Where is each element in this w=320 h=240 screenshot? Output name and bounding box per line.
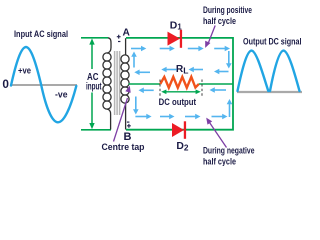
current arrow right rail downward (top loop): [226, 51, 232, 69]
current arrow centre-tap branch downward: [133, 97, 139, 115]
node B polarity minus: [127, 121, 129, 123]
current arrows below mid leftward: [139, 87, 227, 93]
svg-text:input: input: [86, 81, 102, 93]
svg-text:Centre tap: Centre tap: [102, 142, 145, 153]
wire centre tap to load: [129, 83, 161, 85]
transformer T1 core: [115, 51, 120, 115]
input sine wave: [11, 47, 76, 122]
current arrows bottom loop rightward: [135, 114, 227, 120]
transformer T1 secondary bottom lead: [125, 103, 127, 130]
transformer T1 secondary top lead: [125, 38, 127, 55]
svg-text:+ve: +ve: [18, 66, 31, 76]
node A polarity minus: [118, 41, 120, 43]
output rectified waveform: [238, 51, 300, 91]
svg-text:D1: D1: [170, 20, 183, 31]
wire secondary loop (top, right, bottom): [126, 38, 233, 130]
transformer T1 primary bottom lead: [107, 109, 111, 130]
DC output dashed box right: [201, 80, 203, 97]
diode D1: [168, 30, 183, 48]
node B polarity plus: [127, 124, 131, 128]
svg-text:A: A: [123, 28, 131, 39]
wire load to right rail: [199, 83, 233, 85]
wire primary top: [81, 37, 108, 39]
pointer arrow positive half cycle: [205, 26, 215, 48]
transformer T1 secondary winding: [121, 55, 129, 103]
svg-text:half cycle: half cycle: [203, 16, 236, 27]
svg-text:Output DC signal: Output DC signal: [243, 36, 302, 47]
svg-text:Input AC signal: Input AC signal: [14, 29, 68, 40]
transformer T1 primary winding: [103, 53, 111, 109]
svg-text:RL: RL: [176, 64, 189, 76]
AC input double arrow: [89, 38, 94, 129]
DC output dashed box left: [159, 80, 161, 97]
resistor RL: [160, 77, 199, 88]
output signal axis: [237, 91, 302, 93]
svg-text:During positive: During positive: [203, 5, 252, 16]
label AC input: [85, 69, 104, 93]
input signal axis: [10, 84, 77, 86]
pointer arrow negative half cycle: [206, 118, 226, 148]
svg-text:0: 0: [2, 77, 9, 91]
pointer arrow centre tap: [114, 86, 131, 142]
current arrows top loop rightward: [131, 46, 230, 52]
current arrow right rail upward (bottom loop): [227, 99, 233, 117]
svg-text:During negative: During negative: [203, 146, 255, 157]
svg-text:D2: D2: [176, 141, 189, 153]
current arrow left rail upward: [131, 52, 137, 68]
current arrows mid row leftward: [134, 67, 228, 75]
svg-text:DC output: DC output: [159, 97, 197, 108]
diode D2: [172, 121, 186, 139]
svg-text:-ve: -ve: [55, 90, 68, 100]
svg-text:half cycle: half cycle: [203, 156, 236, 166]
DC output double arrow: [161, 90, 201, 95]
wire primary bottom: [81, 129, 111, 131]
node A polarity plus: [117, 35, 121, 39]
transformer T1 primary top lead: [107, 38, 111, 53]
